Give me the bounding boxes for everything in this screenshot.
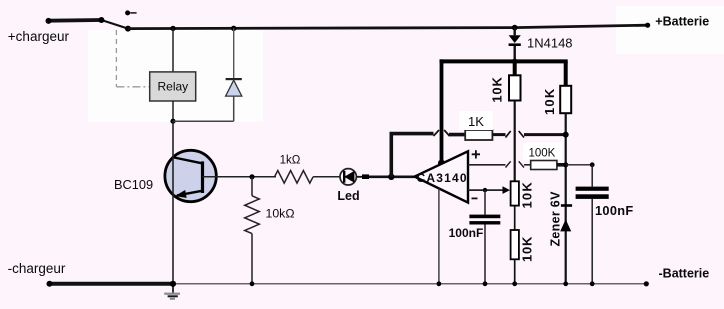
- wire feedback vertical: [389, 134, 393, 177]
- node 1N4148 to bus: [512, 59, 518, 65]
- wire bus left thick down to op-amp: [438, 59, 445, 166]
- zener D2 6V: [560, 204, 572, 231]
- node top rail to relay: [170, 26, 175, 31]
- svg-text:10K: 10K: [542, 88, 557, 115]
- svg-text:1K: 1K: [468, 114, 484, 129]
- svg-text:10kΩ: 10kΩ: [266, 207, 295, 221]
- op-amp U1 CA3140: [415, 151, 468, 202]
- svg-text:100nF: 100nF: [449, 226, 484, 240]
- wire feedback horizontal to 1K: [390, 130, 450, 136]
- node bottom 10K pot chain: [512, 281, 517, 286]
- node bottom C2: [590, 281, 595, 286]
- transistor Q1 BC109: [165, 150, 216, 201]
- node output junction: [388, 174, 394, 180]
- label 100K: [523, 143, 562, 160]
- svg-text:10K: 10K: [490, 76, 505, 102]
- capacitor C2 100nF: [576, 165, 609, 284]
- wire bus top thick: [440, 59, 568, 63]
- wire op-amp V- down: [438, 188, 440, 283]
- node top rail to diode D1: [231, 26, 236, 31]
- resistor 10K middle: [509, 61, 521, 181]
- svg-text:Led: Led: [337, 189, 359, 203]
- resistor 10K right: [560, 61, 571, 283]
- background patch relay area: [88, 30, 263, 122]
- wire relay bottom: [170, 101, 175, 124]
- node bottom zener: [563, 281, 568, 286]
- wire minus input to pot wiper: [468, 186, 510, 194]
- wire top rail left thick: [46, 18, 102, 24]
- wire base lead: [203, 174, 277, 179]
- capacitor C1 100nF: [469, 190, 500, 284]
- LED: [340, 169, 369, 185]
- svg-text:-chargeur: -chargeur: [8, 261, 66, 276]
- label plus input: [472, 150, 480, 158]
- svg-text:+chargeur: +chargeur: [8, 29, 70, 44]
- node bottom 10kOhm: [250, 281, 255, 286]
- svg-text:10K: 10K: [520, 236, 535, 262]
- svg-text:1N4148: 1N4148: [527, 36, 573, 51]
- wire bottom rail thin: [173, 281, 649, 286]
- node bottom op-amp V-: [437, 281, 442, 286]
- svg-text:-Batterie: -Batterie: [659, 267, 710, 281]
- label 1K: [459, 111, 493, 130]
- label minus input: [472, 197, 478, 199]
- potentiometer 10K: [511, 181, 519, 230]
- svg-text:+Batterie: +Batterie: [655, 15, 709, 29]
- svg-text:Relay: Relay: [158, 80, 189, 94]
- svg-text:1kΩ: 1kΩ: [280, 155, 301, 167]
- wire plus input: [468, 161, 531, 167]
- ground: [164, 281, 180, 299]
- node top rail to 1N4148: [512, 25, 518, 31]
- resistor 10K bottom: [511, 230, 519, 284]
- resistor 1kOhm horizontal zigzag: [275, 171, 341, 184]
- dashed control link from switch to relay: [116, 30, 149, 87]
- node bottom C1: [483, 281, 488, 286]
- svg-text:10K: 10K: [520, 181, 535, 208]
- resistor 100K: [531, 161, 569, 170]
- background patch +Batterie: [616, 6, 724, 54]
- svg-text:100K: 100K: [529, 148, 556, 160]
- resistor 1K feedback: [449, 130, 569, 140]
- wire top rail down to relay: [172, 28, 174, 72]
- svg-text:BC109: BC109: [114, 177, 153, 192]
- relay K1: [150, 72, 196, 101]
- wire LED to op-amp output: [369, 176, 415, 179]
- resistor 10kOhm vertical zigzag: [245, 177, 260, 284]
- svg-text:Zener 6V: Zener 6V: [549, 191, 563, 247]
- diode 1N4148: [509, 28, 521, 62]
- wire 100K node to C2: [566, 162, 595, 167]
- wire collector-emitter vertical: [172, 121, 174, 284]
- wire bottom rail thick: [47, 281, 174, 287]
- svg-text:CA3140: CA3140: [417, 171, 467, 185]
- wire diode bottom to relay bottom: [173, 120, 234, 122]
- switch S1: [98, 10, 136, 31]
- svg-text:100nF: 100nF: [595, 203, 634, 218]
- wire top rail main: [128, 23, 650, 29]
- diode D1 flyback: [226, 28, 242, 121]
